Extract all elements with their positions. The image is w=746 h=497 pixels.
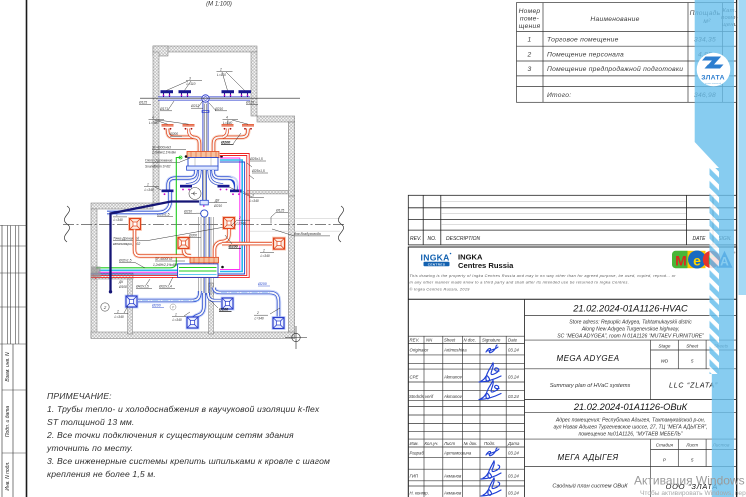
orange top diffuser bar 4 xyxy=(242,124,254,130)
orange duct riser 1 xyxy=(135,230,191,257)
svg-text:Ø171: Ø171 xyxy=(159,107,168,111)
main vertical duct upper xyxy=(203,99,209,152)
title block big divider xyxy=(524,299,526,497)
orange diffuser square 3 xyxy=(177,236,191,250)
svg-text:Stndrds verif: Stndrds verif xyxy=(409,394,434,399)
signature cpe xyxy=(479,363,501,382)
leader label 2 L=340 diffuser4 xyxy=(260,249,274,259)
svg-text:L=340: L=340 xyxy=(261,254,270,258)
svg-text:3: 3 xyxy=(252,194,254,198)
top supply duct xyxy=(158,97,250,101)
title block line under logos xyxy=(408,298,736,300)
svg-text:для Воздуховода: для Воздуховода xyxy=(294,232,321,236)
label d200 orange bottom xyxy=(188,233,201,237)
bottom blue duct left xyxy=(138,291,200,301)
svg-text:Ø200: Ø200 xyxy=(169,132,178,136)
svg-text:03.24: 03.24 xyxy=(508,375,519,380)
svg-text:WD: WD xyxy=(661,359,669,364)
svg-text:Store adress: Repuplic Adygea,: Store adress: Repuplic Adygea, Tahtamuka… xyxy=(569,320,692,326)
blue duct from wall xyxy=(107,192,170,213)
leader label 4 L=340 xyxy=(223,116,249,126)
blue mid diffuser bar 1 xyxy=(162,190,174,196)
label d210 top xyxy=(209,103,227,111)
svg-text:Ø125: Ø125 xyxy=(138,101,147,105)
leader label 2 L=340 diffuser left xyxy=(114,306,128,319)
svg-text:Ø200: Ø200 xyxy=(151,304,161,308)
svg-text:Акманов: Акманов xyxy=(443,474,462,479)
svg-text:REV.: REV. xyxy=(410,338,420,343)
label dk d108 xyxy=(118,280,127,289)
svg-text:Ø42х1,5: Ø42х1,5 xyxy=(135,285,149,289)
svg-text:L=340: L=340 xyxy=(173,318,182,322)
svg-text:Stage: Stage xyxy=(658,344,670,349)
top diffuser 1 xyxy=(161,90,174,97)
svg-text:L=340: L=340 xyxy=(114,218,123,222)
walls xyxy=(91,46,295,339)
navy condensate pipe xyxy=(111,202,200,292)
frame thin vertical border xyxy=(1,225,3,497)
ribbon right strip xyxy=(739,0,746,295)
svg-text:Ø25х1,5: Ø25х1,5 xyxy=(251,169,265,173)
mega logo xyxy=(672,251,736,269)
signature n kontr xyxy=(481,478,501,496)
svg-text:M: M xyxy=(675,253,687,269)
section line top left part xyxy=(140,97,158,99)
label d200 bold center bottom xyxy=(210,300,232,312)
svg-text:SF-4000х4х3: SF-4000х4х3 xyxy=(152,146,171,150)
svg-text:INGKA: INGKA xyxy=(421,253,450,263)
orange duct diffuser3 stub xyxy=(184,250,192,257)
signature column headers english xyxy=(409,338,519,399)
svg-text:группа компаний: группа компаний xyxy=(705,82,722,85)
leader label 2 L=110 xyxy=(217,68,245,91)
svg-text:Акманов: Акманов xyxy=(443,491,462,496)
svg-text:5: 5 xyxy=(691,458,694,463)
frame mini table horizontals xyxy=(0,226,27,454)
svg-text:LLC “ZLATA”: LLC “ZLATA” xyxy=(669,383,718,390)
svg-text:Ø200: Ø200 xyxy=(188,233,197,237)
svg-text:CENTRES: CENTRES xyxy=(428,262,446,266)
wall right wing top xyxy=(257,116,295,122)
stage sheet columns english xyxy=(650,340,652,369)
svg-text:Ø25х1,5: Ø25х1,5 xyxy=(249,157,263,161)
svg-text:L=340: L=340 xyxy=(145,188,154,192)
right cells horizontals xyxy=(525,315,737,317)
ribbon striped zone xyxy=(710,168,720,374)
leader label 2 L=340 diffuser2 xyxy=(231,216,250,226)
top diffuser 4 xyxy=(239,90,252,97)
frame mini table verticals xyxy=(7,226,18,345)
unit node dot right xyxy=(220,155,223,158)
section line top over duct xyxy=(158,97,300,99)
axis break squiggle right xyxy=(338,206,343,242)
svg-text:2: 2 xyxy=(527,51,532,58)
axis line A xyxy=(63,223,345,225)
leader label 3 L=110 xyxy=(167,77,203,91)
svg-text:21.02.2024-01A1126-HVAC: 21.02.2024-01A1126-HVAC xyxy=(572,304,688,314)
label d32x1.4 xyxy=(158,277,175,289)
svg-text:L=340: L=340 xyxy=(255,317,264,321)
ahu upper unit xyxy=(187,152,219,171)
svg-text:Подп.: Подп. xyxy=(484,441,495,446)
svg-text:Подп. и дата: Подп. и дата xyxy=(5,406,11,438)
svg-text:помещение №01А1126, “МУТАЕВ МЕ: помещение №01А1126, “МУТАЕВ МЕБЕЛЬ” xyxy=(579,432,683,438)
svg-text:4: 4 xyxy=(226,116,228,120)
svg-text:Лист: Лист xyxy=(443,441,455,446)
svg-text:ДК: ДК xyxy=(118,280,124,284)
orange top diffuser bar 2 xyxy=(183,124,195,130)
beam edge lines right xyxy=(250,218,340,220)
wall small room partition xyxy=(128,279,133,334)
bottom blue duct center-right xyxy=(208,293,221,301)
svg-text:Ø200: Ø200 xyxy=(257,282,267,286)
svg-text:1: 1 xyxy=(175,313,177,317)
svg-text:3: 3 xyxy=(189,77,191,81)
svg-text:Артимошина: Артимошина xyxy=(443,451,472,456)
svg-text:e: e xyxy=(693,253,701,269)
store address english xyxy=(557,320,704,340)
svg-text:Ø32х1,5: Ø32х1,5 xyxy=(118,259,132,263)
svg-text:ST толщиной 13 мм.: ST толщиной 13 мм. xyxy=(47,417,134,427)
svg-text:Sheet: Sheet xyxy=(444,338,456,343)
svg-text:аул Новая Адыгея Тургеневское: аул Новая Адыгея Тургеневское шоссе, 27,… xyxy=(553,425,707,431)
main vertical duct lower xyxy=(202,170,207,200)
svg-text:5: 5 xyxy=(691,359,694,364)
magenta stub dot xyxy=(98,271,100,273)
bottom blue duct far right xyxy=(214,288,279,317)
top diffuser 2 xyxy=(179,90,192,97)
svg-text:Artimoshina: Artimoshina xyxy=(443,348,467,353)
fan circle symbol xyxy=(189,188,201,200)
label d25x1.5 near wall duct xyxy=(156,213,173,217)
svg-text:MEGA ADYGEA: MEGA ADYGEA xyxy=(557,354,620,363)
svg-text:CPE: CPE xyxy=(410,375,419,380)
unit green valve xyxy=(179,156,182,159)
room table column lines xyxy=(542,3,544,103)
svg-text:Ø200: Ø200 xyxy=(221,141,231,145)
svg-text:поме-: поме- xyxy=(520,16,540,23)
svg-text:L=360: L=360 xyxy=(149,121,158,125)
frame text cell divider xyxy=(12,344,14,497)
svg-text:2: 2 xyxy=(262,249,265,253)
revision table columns xyxy=(422,195,424,245)
svg-text:03.24: 03.24 xyxy=(508,394,519,399)
svg-text:DATE: DATE xyxy=(693,236,707,242)
label d32x1.5 left xyxy=(118,259,145,269)
label d125 left xyxy=(138,101,151,105)
label sound xyxy=(145,158,190,169)
stage sheet columns russian xyxy=(650,439,652,466)
svg-text:МЕГА АДЫГЕЯ: МЕГА АДЫГЕЯ xyxy=(558,453,619,462)
svg-text:03.24: 03.24 xyxy=(508,474,519,479)
wall right lower xyxy=(288,196,294,332)
svg-text:21.02.2024-01А1126-ОВиК: 21.02.2024-01А1126-ОВиК xyxy=(573,402,688,412)
svg-text:1: 1 xyxy=(528,37,532,44)
label DK d210 xyxy=(209,199,227,209)
signature column headers russian xyxy=(410,441,520,496)
label lower unit spec xyxy=(153,257,185,267)
duct flange mark xyxy=(202,111,209,113)
svg-text:ЗЛАТА: ЗЛАТА xyxy=(701,75,725,82)
svg-text:2. Все точки подключения к сущ: 2. Все точки подключения к существующим … xyxy=(46,430,294,440)
svg-text:уточнить по месту.: уточнить по месту. xyxy=(46,443,133,453)
ingka centres russia black logo xyxy=(458,253,514,270)
orange stem top inner-right xyxy=(223,129,228,138)
label d25x1.5 upper xyxy=(247,157,266,167)
svg-text:крепления не более 1,5 м.: крепления не более 1,5 м. xyxy=(47,469,156,479)
blue diffuser square 3 xyxy=(186,316,200,330)
revision table rows xyxy=(408,207,736,209)
svg-text:1. Трубы тепло- и холодоснабже: 1. Трубы тепло- и холодоснабжения в кауч… xyxy=(47,404,320,414)
svg-text:Originator: Originator xyxy=(410,348,429,353)
valve circle on riser xyxy=(201,210,208,217)
signature standards xyxy=(479,381,501,400)
orange diffuser square 4 xyxy=(272,237,286,251)
svg-text:2: 2 xyxy=(219,68,222,72)
small circle p xyxy=(170,304,176,310)
svg-text:1: 1 xyxy=(147,183,149,187)
svg-text:Помещение предпродажной подг: Помещение предпродажной подготовки xyxy=(547,65,683,73)
frame thick vertical line xyxy=(26,0,28,497)
wall left lower xyxy=(91,209,97,338)
signature originator xyxy=(486,345,498,353)
leader label 1 L=340 left xyxy=(144,183,161,193)
svg-text:L=340: L=340 xyxy=(115,315,124,319)
label drainage point xyxy=(113,225,236,246)
signature gip xyxy=(481,461,501,479)
wall right wing bottom xyxy=(247,191,288,194)
svg-text:Summary plan of HVaC systems: Summary plan of HVaC systems xyxy=(550,383,631,389)
wall right wing vertical xyxy=(288,122,294,196)
red pipe T1 wrap xyxy=(91,156,247,276)
wall bottom xyxy=(91,332,295,339)
svg-text:in any other manner made know: in any other manner made know to a third… xyxy=(410,281,630,285)
label d200 mid-right bold xyxy=(221,133,241,145)
svg-text:Глот. Орехование: Глот. Орехование xyxy=(145,159,173,163)
wall left step horizontal xyxy=(91,203,153,209)
svg-text:Инв. N подл.: Инв. N подл. xyxy=(5,461,11,490)
stage header russian xyxy=(656,443,730,463)
svg-text:Ø108: Ø108 xyxy=(118,285,127,289)
label 2 L340 near wall xyxy=(113,213,127,222)
svg-text:Ø32х1,4: Ø32х1,4 xyxy=(158,285,172,289)
svg-text:Н. контр.: Н. контр. xyxy=(410,491,429,496)
svg-text:Ø200: Ø200 xyxy=(229,244,239,248)
svg-text:Изм.: Изм. xyxy=(410,441,419,446)
label d200 blue right xyxy=(257,282,270,286)
svg-text:Сводный план систем ОВиК: Сводный план систем ОВиК xyxy=(552,483,628,490)
top diffuser 3 xyxy=(222,90,235,97)
zlata round logo xyxy=(697,53,731,87)
label d200 bold bottom xyxy=(225,235,241,248)
svg-text:Торговое помещение: Торговое помещение xyxy=(547,37,619,44)
svg-text:Активация Windows: Активация Windows xyxy=(634,474,745,488)
svg-text:Along New Adygea Turgenevskoe: Along New Adygea Turgenevskoe highway, xyxy=(581,327,680,333)
svg-text:This drawing is the property o: This drawing is the property of Ingka Ce… xyxy=(410,274,677,278)
svg-text:03.24: 03.24 xyxy=(508,491,519,496)
svg-text:Akmanov: Akmanov xyxy=(443,375,463,380)
orange duct diffuser2 riser xyxy=(215,229,230,257)
left columns verticals xyxy=(423,336,425,497)
blue branch mid right-inner xyxy=(209,170,223,185)
unit node dot left xyxy=(185,155,188,158)
blue branch mid right-outer xyxy=(213,170,236,190)
svg-text:Взам. инв. N: Взам. инв. N xyxy=(5,352,11,382)
title block outer border xyxy=(408,247,736,497)
svg-text:Ø210: Ø210 xyxy=(183,210,192,214)
svg-text:Ø210: Ø210 xyxy=(213,204,222,208)
orange diffuser square 2 xyxy=(222,216,236,230)
label d210 on riser xyxy=(183,210,201,214)
svg-text:ГИП: ГИП xyxy=(410,474,419,479)
svg-text:Sheet: Sheet xyxy=(686,344,699,349)
svg-text:L=340: L=340 xyxy=(237,222,246,226)
axis break squiggle left xyxy=(64,206,69,242)
svg-text:3. Все инженерные системы креп: 3. Все инженерные системы крепить шпильк… xyxy=(47,456,330,466)
duct junction circle xyxy=(202,95,209,102)
svg-text:ПРИМЕЧАНИЕ:: ПРИМЕЧАНИЕ: xyxy=(47,391,112,401)
svg-text:Чтобы активировать Windows, пе: Чтобы активировать Windows, перейдите в … xyxy=(640,489,746,497)
signature razrab xyxy=(486,448,499,456)
orange supply branch top left xyxy=(168,129,200,152)
svg-text:03.24: 03.24 xyxy=(508,451,519,456)
left columns horizontals russian xyxy=(408,438,524,440)
svg-text:Кол.уч.: Кол.уч. xyxy=(425,441,439,446)
orange stem top inner-left xyxy=(189,129,194,138)
ribbon main band xyxy=(695,0,734,497)
svg-text:щения: щения xyxy=(519,23,541,30)
orange supply branch top right xyxy=(214,129,249,152)
svg-text:03.24: 03.24 xyxy=(508,348,519,353)
svg-text:Наименование: Наименование xyxy=(590,16,639,23)
label d171 xyxy=(159,101,174,111)
svg-text:Номер: Номер xyxy=(519,8,541,15)
revision table border xyxy=(408,195,736,245)
leader label 3 L=340 right xyxy=(229,187,264,203)
wall center partition xyxy=(209,283,214,334)
navy end dot xyxy=(109,290,112,293)
green stub dot xyxy=(97,267,99,269)
svg-text:(М 1:100): (М 1:100) xyxy=(206,2,232,8)
label d125 right xyxy=(245,101,258,105)
orange top diffuser bar 1 xyxy=(162,124,174,130)
svg-text:NN: NN xyxy=(426,338,433,343)
svg-text:2,0х8м/2,1%х8м: 2,0х8м/2,1%х8м xyxy=(151,151,177,155)
wall sleeve block xyxy=(91,267,101,278)
svg-text:NO.: NO. xyxy=(428,236,437,242)
copyright text xyxy=(410,274,677,292)
svg-text:Ø125: Ø125 xyxy=(245,101,254,105)
blue branch mid left-outer xyxy=(168,170,196,190)
svg-text:L=110: L=110 xyxy=(217,73,226,77)
damper box xyxy=(200,200,208,205)
svg-text:Лист: Лист xyxy=(685,443,698,448)
svg-text:Р: Р xyxy=(663,458,667,463)
llc divider russian xyxy=(650,467,652,497)
label vent note right xyxy=(272,229,330,236)
orange diffuser square 1 xyxy=(128,217,142,231)
svg-text:Akmanov: Akmanov xyxy=(443,394,463,399)
leader label 4 L=360 xyxy=(149,116,189,126)
label d125 right wall xyxy=(271,208,288,223)
svg-text:N doc.: N doc. xyxy=(464,338,476,343)
red stub dots xyxy=(93,275,95,277)
svg-text:4: 4 xyxy=(152,116,154,120)
cyan pipe right xyxy=(220,160,242,272)
label d212 xyxy=(190,101,203,109)
magenta pipe left xyxy=(99,271,178,273)
svg-text:2: 2 xyxy=(103,305,107,310)
cyan pipe left xyxy=(99,269,178,271)
orange duct to diffuser4 xyxy=(222,241,272,246)
wall top xyxy=(153,46,257,52)
blue mid diffuser bar 2 xyxy=(180,185,192,191)
label d42x1.5 xyxy=(135,279,152,289)
svg-text:Date: Date xyxy=(508,338,518,343)
svg-text:Signature: Signature xyxy=(482,338,501,343)
svg-text:Ø200: Ø200 xyxy=(219,308,229,312)
blue mid diffuser bar 3 xyxy=(218,185,230,191)
svg-text:Стадия: Стадия xyxy=(656,443,674,448)
riser blue pair xyxy=(205,217,210,295)
svg-text:№ док.: № док. xyxy=(464,441,478,446)
svg-text:Адрес помещения: Республика Ад: Адрес помещения: Республика Адыгея, Тахт… xyxy=(555,417,705,424)
magenta pipe right xyxy=(220,158,240,270)
svg-text:Ø212: Ø212 xyxy=(190,104,199,108)
svg-text:1,2х8Н/2,1%х8Н: 1,2х8Н/2,1%х8Н xyxy=(153,263,178,267)
svg-text:Ø125: Ø125 xyxy=(275,208,284,212)
svg-text:DESCRIPTION: DESCRIPTION xyxy=(446,236,481,242)
label d200 mid-left xyxy=(169,132,182,136)
axis cross bottom right xyxy=(285,326,307,349)
svg-text:SoundBonn S=В2: SoundBonn S=В2 xyxy=(145,165,171,169)
room table row lines xyxy=(517,30,737,32)
left columns horizontals english xyxy=(408,335,524,337)
blue thin pipe wrap xyxy=(91,162,245,274)
svg-text:Р: Р xyxy=(172,306,175,310)
svg-text:Centres Russia: Centres Russia xyxy=(458,261,514,270)
svg-text:SC “MEGA ADYGEA”, room N 01A11: SC “MEGA ADYGEA”, room N 01A1126 “MUTAEV… xyxy=(557,334,704,340)
wall left upper xyxy=(153,52,159,203)
room table outer border xyxy=(517,3,737,103)
wall right of top room xyxy=(251,52,257,116)
svg-text:REV.: REV. xyxy=(410,236,421,242)
room circle 2 xyxy=(101,303,109,311)
label d25x1.5 lower xyxy=(249,169,268,179)
leader label 2 L=340 diffuser right xyxy=(254,308,280,321)
svg-text:Помещение персонала: Помещение персонала xyxy=(547,51,624,58)
stage header english xyxy=(658,344,728,364)
green pipe loop xyxy=(96,158,181,268)
svg-text:2: 2 xyxy=(238,216,241,220)
wall top-left corner block xyxy=(153,46,168,56)
svg-text:Дата: Дата xyxy=(507,441,520,446)
llc divider english xyxy=(650,369,652,400)
wall small room horizontal xyxy=(91,273,133,279)
blue diffuser square 1 xyxy=(125,295,139,309)
svg-text:Разраб: Разраб xyxy=(410,451,425,456)
svg-text:2: 2 xyxy=(256,311,259,315)
label d200 blue left xyxy=(151,304,164,308)
frame right vertical line xyxy=(736,0,738,497)
red pipe T2 wrap xyxy=(91,154,249,278)
riser pipe bundle xyxy=(199,217,214,295)
revision table mid guide lines xyxy=(441,202,686,225)
svg-text:ДК: ДК xyxy=(214,199,220,203)
svg-text:3: 3 xyxy=(528,66,532,73)
ahu lower unit xyxy=(178,257,219,277)
svg-text:Итого:: Итого: xyxy=(547,92,571,99)
